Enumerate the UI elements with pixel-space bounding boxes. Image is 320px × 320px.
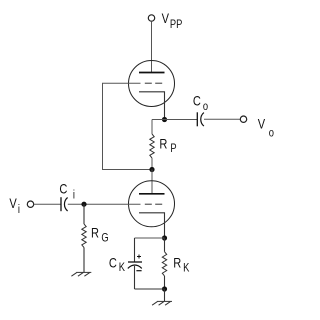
wire VPP to upper plate (151, 21, 153, 72)
triode V2 plate (139, 193, 165, 195)
svg-text:G: G (101, 231, 108, 244)
label Vi (9, 196, 17, 211)
svg-text:R: R (173, 255, 181, 270)
label RG (91, 226, 99, 241)
minus mark CK (136, 270, 141, 272)
wire Co to Vo terminal (204, 118, 240, 120)
svg-text:P: P (170, 142, 176, 155)
svg-text:o: o (203, 100, 208, 113)
svg-text:R: R (159, 136, 167, 151)
label Ci (59, 181, 67, 196)
triode V2 (lower) envelope (129, 181, 175, 227)
terminal Vo (240, 116, 246, 122)
wire cathode node to CK branch (135, 237, 165, 239)
ground (cathode) (152, 301, 172, 305)
node cathode ground junction (162, 286, 167, 291)
capacitor CK (electrolytic) (128, 261, 142, 263)
ground (RG) (71, 272, 91, 276)
resistor RG (83, 204, 85, 224)
label RP (159, 136, 167, 151)
triode V1 (upper) envelope (129, 61, 175, 107)
svg-text:C: C (193, 94, 201, 109)
label Co (193, 94, 201, 109)
svg-text:V: V (258, 116, 266, 131)
plus mark CK (137, 255, 141, 259)
triode V2 cathode (139, 213, 165, 238)
svg-text:C: C (59, 181, 67, 196)
label CK (109, 256, 117, 271)
svg-text:o: o (269, 126, 274, 139)
terminal Vi (27, 201, 33, 207)
wire CK bottom lead (134, 266, 136, 289)
node grid junction (81, 202, 86, 207)
svg-text:C: C (109, 256, 117, 271)
svg-text:V: V (162, 11, 170, 26)
triode V1 grid (dashed) (145, 82, 152, 84)
terminal VPP (148, 15, 154, 21)
capacitor Co (196, 112, 198, 126)
wire node to ground (164, 289, 166, 301)
capacitor Ci (60, 197, 62, 211)
wire Vi to Ci (34, 203, 61, 205)
label Vo (258, 116, 266, 131)
svg-text:K: K (183, 262, 190, 275)
triode V1 plate (139, 72, 165, 74)
triode V1 cathode (139, 92, 165, 120)
wire Ci to grid V2 (68, 203, 141, 205)
wire CK bottom to node (135, 288, 165, 290)
label RK (173, 255, 181, 270)
wire output node (152, 119, 197, 121)
triode V2 grid (dashed) (145, 203, 152, 205)
wire CK top lead (134, 238, 136, 262)
resistor RP (151, 120, 153, 135)
svg-text:i: i (18, 203, 20, 216)
svg-text:K: K (119, 261, 126, 274)
wire grid V1 feedback (left loop to lower plate node) (103, 83, 152, 169)
wire node to lower plate (151, 170, 153, 194)
svg-text:i: i (73, 189, 75, 202)
resistor RK (164, 238, 166, 252)
svg-text:V: V (9, 196, 17, 211)
svg-text:R: R (91, 226, 99, 241)
label VPP (162, 11, 170, 26)
node output junction (162, 117, 167, 122)
node plate of V2 / RP bottom (149, 167, 154, 172)
svg-text:PP: PP (170, 18, 182, 31)
node cathode V2 (162, 235, 167, 240)
